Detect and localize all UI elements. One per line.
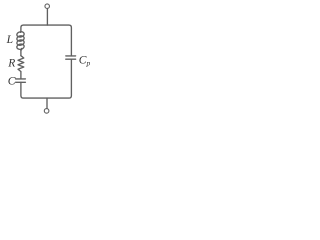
wire bottom stem [46,98,48,109]
inductor L [16,31,24,50]
svg-text:L: L [6,34,13,46]
top terminal [45,4,50,9]
wire L to R [20,50,22,56]
capacitor Cp [66,56,76,59]
resistor R [18,56,24,72]
svg-text:C: C [8,75,16,87]
wire top rail [21,25,72,56]
svg-text:Cp: Cp [79,55,91,68]
wire top stem [46,9,48,26]
bottom terminal [44,109,49,114]
wire bottom rail [21,59,72,98]
wire R to C [20,72,22,79]
capacitor C [16,79,26,82]
svg-text:R: R [7,57,15,69]
